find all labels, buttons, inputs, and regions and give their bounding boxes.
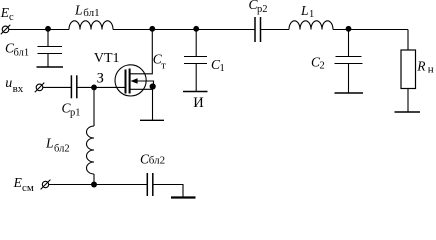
terminal E_sm: [41, 180, 51, 190]
svg-text:L: L: [74, 3, 83, 18]
label C_p1: [62, 101, 81, 119]
node C2 junction dot: [346, 26, 352, 32]
wire source down: [152, 87, 154, 121]
label Rn: [416, 58, 434, 75]
capacitor C_p2: [255, 17, 261, 42]
ground under C_bl1: [37, 66, 64, 68]
wire Rn to ground: [407, 89, 409, 112]
label Ec: [0, 5, 14, 23]
label C_bl2: [140, 152, 165, 167]
svg-text:т: т: [161, 61, 166, 72]
label u_in: [5, 76, 24, 95]
node C1 junction dot: [193, 26, 199, 32]
ground under source: [140, 119, 164, 121]
capacitor C1: [184, 30, 207, 92]
label C_bl1: [5, 41, 29, 59]
svg-text:VT1: VT1: [94, 51, 120, 66]
terminal u_in: [35, 83, 45, 93]
ground under C2: [335, 92, 364, 94]
wire L1 to Rn corner: [333, 29, 408, 31]
inductor L_bl1: [69, 21, 113, 30]
label C1: [211, 57, 225, 74]
terminal Ec: [1, 25, 11, 35]
ground under Rn: [395, 111, 421, 113]
node source junction dot: [150, 83, 156, 89]
wire L_bl1 to C_p2: [113, 29, 255, 31]
ground bottom right: [171, 196, 196, 198]
label C2: [311, 55, 325, 72]
inductor L_bl2: [87, 126, 95, 174]
svg-text:u: u: [5, 76, 12, 91]
svg-text:L: L: [45, 136, 54, 151]
wire Ec to junction A and L_bl1: [9, 29, 69, 31]
svg-text:н: н: [428, 64, 434, 76]
label C_t: [153, 52, 167, 72]
svg-text:бл1: бл1: [83, 7, 99, 19]
svg-text:с: с: [9, 12, 14, 23]
node drain junction dot: [149, 26, 155, 32]
svg-text:бл2: бл2: [149, 155, 165, 167]
svg-text:И: И: [193, 95, 204, 111]
svg-text:L: L: [300, 3, 309, 18]
node A junction dot: [45, 26, 51, 32]
label L1: [300, 3, 314, 20]
wire C_p2 to L1: [261, 29, 289, 31]
svg-text:R: R: [416, 58, 426, 73]
svg-text:вх: вх: [13, 83, 24, 95]
capacitor C_bl2: [147, 173, 153, 196]
svg-text:З: З: [97, 71, 104, 87]
svg-text:2: 2: [320, 61, 325, 72]
capacitor C_bl1: [38, 30, 63, 67]
wire u_in to C_p1: [43, 86, 71, 88]
wire rail down to Rn: [407, 30, 409, 51]
svg-text:бл1: бл1: [14, 48, 30, 59]
label L_bl2: [45, 136, 70, 155]
wire C_bl2 to ground: [153, 185, 183, 198]
svg-text:бл2: бл2: [54, 144, 70, 155]
wire L_bl2 to bias rail: [93, 174, 95, 185]
node bias junction dot: [91, 182, 97, 188]
svg-text:см: см: [22, 182, 34, 194]
capacitor C2: [335, 30, 363, 93]
label L_bl1: [74, 3, 100, 20]
node gate junction dot: [91, 85, 97, 91]
label C_p2: [249, 0, 268, 15]
transistor VT1: [115, 65, 153, 96]
svg-text:1: 1: [220, 63, 225, 74]
ground under C1 (source node): [183, 91, 208, 93]
resistor Rn: [401, 50, 416, 89]
wire C_p1 to gate: [77, 86, 125, 88]
inductor L1: [289, 21, 333, 30]
wire drain to rail: [130, 30, 152, 74]
svg-text:р2: р2: [257, 4, 268, 15]
label E_sm: [13, 175, 34, 194]
wire gate junction down to L_bl2: [93, 87, 95, 126]
svg-text:р1: р1: [70, 108, 81, 119]
svg-text:1: 1: [309, 9, 314, 20]
capacitor C_p1: [71, 75, 76, 98]
wire E_sm to C_bl2: [49, 184, 147, 186]
